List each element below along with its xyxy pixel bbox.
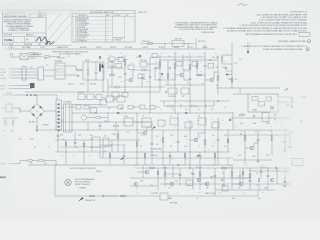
- svg-text:LINE CORD: LINE CORD: [174, 39, 182, 41]
- svg-text:IF 455KC: IF 455KC: [142, 47, 148, 49]
- wire: [26, 71, 38, 73]
- inner box: [252, 97, 258, 101]
- svg-text:3.3K: 3.3K: [126, 132, 129, 134]
- svg-text:220K: 220K: [224, 135, 227, 137]
- resistor R101: [150, 167, 155, 169]
- dark arrow mark: [284, 88, 288, 91]
- resistor R44: [115, 86, 120, 88]
- svg-text:-4.5V: -4.5V: [72, 155, 75, 157]
- wire drop: [187, 44, 189, 50]
- svg-text:12: 12: [222, 173, 224, 175]
- wire: [115, 122, 117, 125]
- potentiometer arrow: [152, 126, 156, 129]
- rail y147: [60, 146, 112, 148]
- rail y130: [36, 129, 120, 131]
- wire: [9, 74, 22, 76]
- svg-text:T1 POWER: T1 POWER: [54, 61, 63, 63]
- svg-text:1N34: 1N34: [240, 123, 243, 125]
- svg-text:-7V: -7V: [212, 71, 214, 73]
- svg-text:50: 50: [187, 83, 189, 85]
- rail y57: [150, 56, 205, 58]
- ground: [284, 150, 287, 152]
- resistor R82: [136, 142, 138, 147]
- wire: [36, 131, 38, 133]
- diode CR6: [117, 112, 119, 114]
- wire vertical: [177, 113, 179, 152]
- wire vertical: [54, 165, 56, 196]
- box module M8: [262, 113, 269, 122]
- svg-text:GRID: GRID: [106, 79, 109, 81]
- svg-text:117V 60CY: 117V 60CY: [29, 58, 36, 60]
- resistor R43: [159, 62, 161, 67]
- wire vertical: [57, 132, 59, 152]
- wire vertical: [204, 52, 206, 113]
- svg-text:REV C: REV C: [39, 16, 43, 18]
- wire: [36, 119, 38, 127]
- wire vertical: [87, 122, 89, 130]
- svg-text:R61: R61: [216, 57, 219, 59]
- junction: [36, 94, 37, 95]
- resistor R91: [244, 136, 246, 141]
- capacitor C20: [221, 179, 224, 181]
- svg-text:B+90: B+90: [214, 53, 217, 55]
- connector J2 contact: [57, 111, 60, 113]
- wire vertical: [172, 165, 174, 178]
- parts list column header line: [72, 15, 135, 17]
- ground: [257, 160, 260, 162]
- wire: [95, 74, 97, 80]
- svg-text:6K6: 6K6: [90, 135, 93, 137]
- svg-text:16MF: 16MF: [228, 79, 232, 81]
- title block row line: [3, 13, 47, 15]
- title block cell line: [38, 11, 46, 13]
- wire vertical: [249, 168, 251, 190]
- svg-text:25V: 25V: [214, 142, 216, 144]
- capacitor C102: [275, 167, 277, 170]
- box module M20: [108, 62, 114, 67]
- wire vertical: [91, 147, 93, 152]
- wire short: [165, 173, 180, 175]
- capacitor C101: [189, 167, 191, 170]
- wire vertical: [83, 140, 85, 165]
- svg-text:BLK: BLK: [90, 147, 93, 149]
- resistor R32: [148, 43, 153, 45]
- junction: [174, 59, 175, 60]
- junction: [56, 113, 57, 114]
- svg-text:C33 40: C33 40: [80, 83, 85, 85]
- title block column line: [37, 10, 39, 18]
- svg-text:1M: 1M: [198, 120, 200, 122]
- resistor R46: [110, 74, 115, 76]
- wire: [2, 107, 6, 109]
- svg-text:7. ARROWS ON POT SYMBOLS INDI: 7. ARROWS ON POT SYMBOLS INDICATE CLOCKW…: [241, 45, 308, 48]
- wire vertical: [107, 80, 109, 98]
- svg-text:OSC: OSC: [174, 53, 177, 55]
- wire: [8, 88, 22, 90]
- junction: [167, 67, 168, 68]
- can cap inner line: [69, 104, 71, 132]
- dark dot speck: [217, 100, 218, 101]
- wire: [208, 105, 215, 107]
- wire: [183, 77, 185, 81]
- wire vertical: [102, 147, 104, 158]
- tube V1 envelope: [81, 115, 86, 120]
- svg-text:3V: 3V: [130, 71, 132, 73]
- wire vertical: [227, 130, 229, 152]
- svg-text:1. ALL CAPACITOR VALUES IN MF: 1. ALL CAPACITOR VALUES IN MFD 400V PAPE…: [255, 13, 307, 16]
- wire: [26, 68, 38, 70]
- resistor R85: [109, 154, 111, 158]
- capacitor C84: [123, 155, 126, 157]
- svg-text:470K: 470K: [232, 198, 235, 200]
- title block table T1: [3, 10, 47, 46]
- svg-text:R9: R9: [34, 147, 36, 149]
- capacitor C85: [169, 155, 172, 157]
- resistor R61: [221, 57, 223, 61]
- wire: [111, 70, 113, 74]
- svg-text:1M: 1M: [186, 61, 188, 63]
- wire: [125, 79, 129, 81]
- svg-text:INTERLOCK: INTERLOCK: [142, 41, 150, 43]
- svg-text:SCRN: SCRN: [146, 81, 150, 83]
- wire vertical: [232, 112, 234, 130]
- resistor R74: [114, 125, 119, 127]
- resistor R24: [90, 195, 95, 197]
- rail y160: [233, 159, 272, 161]
- wire: [102, 80, 104, 92]
- junction: [136, 151, 137, 152]
- svg-text:T6: T6: [198, 116, 200, 118]
- junction: [160, 60, 161, 61]
- wire: [28, 56, 43, 58]
- wire drop: [204, 44, 206, 49]
- wire: [164, 105, 168, 107]
- wire vertical: [192, 168, 194, 190]
- wire vertical: [196, 60, 198, 73]
- transistor Q10: [145, 170, 149, 174]
- wire: [22, 87, 32, 90]
- rail y135 short: [228, 134, 290, 136]
- wire AC line: [2, 94, 57, 96]
- svg-text:470: 470: [172, 59, 174, 61]
- fuse F1: [38, 67, 44, 80]
- svg-text:1500: 1500: [170, 135, 173, 137]
- capacitor C41: [124, 73, 127, 75]
- svg-text:GRN: GRN: [155, 192, 158, 194]
- svg-text:6BE6: 6BE6: [160, 53, 163, 55]
- wire: [72, 104, 102, 106]
- parts list row line: [76, 23, 113, 25]
- diode CR2: [99, 56, 101, 58]
- junction: [124, 112, 125, 113]
- svg-text:B+250: B+250: [88, 155, 92, 157]
- junction: [55, 129, 56, 130]
- resistor R56: [192, 105, 197, 107]
- svg-text:V5 35Z5GT RECT: V5 35Z5GT RECT: [77, 37, 88, 39]
- parts list row line: [76, 35, 113, 37]
- wire: [12, 107, 20, 109]
- circled reference numeral 3: [306, 48, 309, 51]
- wire vertical: [239, 88, 241, 94]
- connector J2 contact: [57, 122, 60, 124]
- wire: [87, 80, 89, 92]
- svg-text:R35 100K: R35 100K: [90, 83, 96, 85]
- svg-text:L1 8H: L1 8H: [124, 116, 128, 118]
- wire vertical: [151, 122, 153, 165]
- rail y168: [135, 167, 290, 169]
- wire: [65, 65, 76, 67]
- transformer T1: [55, 63, 65, 79]
- rail y178: [130, 177, 250, 179]
- wire horizontal: [160, 59, 218, 61]
- svg-text:25V: 25V: [108, 108, 110, 110]
- wire row y107: [66, 106, 76, 108]
- wire L-shape: [227, 158, 229, 165]
- wire: [72, 112, 100, 114]
- wire: [100, 117, 108, 119]
- component stack right of module: [291, 98, 293, 103]
- resistor R52: [189, 65, 191, 70]
- wire vertical: [124, 55, 126, 92]
- wire: [62, 119, 64, 121]
- capacitor C73: [99, 125, 102, 127]
- wire vertical: [162, 130, 164, 165]
- wire vertical: [189, 55, 191, 113]
- svg-text:150V: 150V: [18, 139, 21, 141]
- box module M24: [192, 62, 198, 67]
- svg-text:GND BUS: GND BUS: [80, 47, 86, 49]
- wire vertical: [244, 130, 246, 160]
- wire: [239, 170, 241, 175]
- resistor R86: [144, 154, 146, 158]
- capacitor C104: [260, 171, 263, 173]
- junction: [218, 152, 219, 153]
- svg-text:330: 330: [216, 85, 218, 87]
- wire: [2, 117, 18, 119]
- wire: [124, 59, 129, 61]
- junction: [174, 100, 175, 101]
- connector J2 contact: [57, 115, 60, 117]
- wire: [130, 195, 160, 197]
- resistor R55: [168, 105, 173, 107]
- junction: [245, 152, 246, 153]
- svg-text:2.2K: 2.2K: [130, 63, 133, 65]
- junction: [190, 85, 191, 86]
- svg-text:270: 270: [211, 109, 213, 111]
- parts list header line: [72, 13, 135, 15]
- inner box: [259, 102, 265, 107]
- circled reference numeral 2: [308, 40, 311, 43]
- wire: [190, 139, 194, 141]
- junction: [231, 87, 232, 88]
- wire: [225, 68, 227, 71]
- svg-text:0V: 0V: [198, 127, 200, 129]
- junction: [108, 113, 109, 114]
- wire vertical: [157, 168, 159, 190]
- wire: [133, 121, 150, 123]
- row of small modules y105: [76, 105, 81, 109]
- svg-text:C41 .05: C41 .05: [136, 57, 141, 59]
- terminal lug: [22, 77, 26, 79]
- box module M27: [222, 186, 228, 191]
- svg-text:INDICATES CHASSIS GROUND: INDICATES CHASSIS GROUND: [278, 40, 306, 43]
- svg-text:4. ALL CONTROLS AT NORMAL OPE: 4. ALL CONTROLS AT NORMAL OPERATING POSI…: [251, 21, 308, 24]
- svg-text:25MF: 25MF: [252, 156, 256, 158]
- svg-text:47: 47: [199, 136, 201, 138]
- wire: [221, 61, 223, 64]
- resistor R70: [36, 127, 38, 131]
- capacitor C15: [102, 195, 104, 198]
- svg-text:50L6 OUTPUT 35Z5 RECT 12SQ: 50L6 OUTPUT 35Z5 RECT 12SQ7 DET: [70, 168, 96, 170]
- junction: [96, 80, 97, 81]
- capacitor C82: [177, 141, 180, 143]
- wire vertical: [111, 60, 113, 87]
- svg-text:250: 250: [156, 136, 158, 138]
- resistor R45: [156, 67, 161, 69]
- wire: [149, 57, 151, 60]
- box M15: [170, 118, 178, 125]
- resistor R103: [157, 171, 159, 175]
- bridge diode: [39, 106, 42, 109]
- transistor Q13: [270, 178, 274, 182]
- svg-text:12K: 12K: [162, 120, 164, 122]
- parts list column line: [112, 14, 114, 42]
- inner dark bar in regulator: [99, 64, 101, 72]
- filter can C72: [64, 104, 73, 132]
- box module M23: [176, 62, 182, 67]
- wire vertical: [276, 168, 278, 184]
- title block column line: [29, 10, 31, 18]
- svg-text:10K: 10K: [235, 63, 237, 65]
- svg-text:100: 100: [239, 59, 241, 61]
- plug contact dot: [26, 94, 28, 96]
- svg-text:C12: C12: [212, 165, 215, 167]
- wire horizontal: [165, 84, 205, 86]
- title block column line: [24, 37, 26, 43]
- plug contact dot: [34, 94, 36, 96]
- svg-text:PART NUMBERS SHOWN ARE FOR RUN: PART NUMBERS SHOWN ARE FOR RUN 2 SETS ON…: [246, 33, 298, 36]
- title block column line: [34, 37, 36, 43]
- wire vertical: [257, 130, 259, 160]
- wire: [233, 93, 248, 95]
- capacitor C33: [95, 72, 98, 74]
- svg-text:85V: 85V: [172, 73, 174, 75]
- resistor R48: [196, 64, 198, 69]
- capacitor C53: [180, 105, 182, 108]
- junction: [215, 178, 216, 179]
- resistor R71: [6, 104, 12, 112]
- svg-text:50C5: 50C5: [266, 155, 269, 157]
- potentiometer arrow: [196, 154, 199, 157]
- svg-text:.05: .05: [196, 198, 198, 200]
- resistor R92: [271, 136, 273, 141]
- svg-text:GRN: GRN: [75, 147, 78, 149]
- tube V3 box: [103, 138, 109, 146]
- ground: [291, 106, 294, 108]
- wire vertical: [123, 145, 125, 165]
- wire vertical: [164, 165, 166, 186]
- box module M21: [116, 64, 122, 69]
- capacitor C63: [287, 103, 290, 105]
- capacitor C94: [57, 135, 60, 137]
- svg-text:.02: .02: [256, 185, 258, 187]
- wire: [99, 122, 101, 125]
- note checkbox: [299, 33, 310, 37]
- rail y122: [56, 121, 150, 123]
- svg-text:T3 IF 455KC: T3 IF 455KC: [168, 96, 176, 98]
- wire: [22, 83, 29, 86]
- svg-text:45V: 45V: [186, 71, 188, 73]
- transistor Q7: [170, 182, 174, 186]
- svg-text:3V: 3V: [270, 131, 272, 133]
- box module M28: [172, 41, 184, 47]
- resistor R33: [87, 70, 89, 75]
- svg-text:IF T2: IF T2: [112, 100, 115, 102]
- diode CR7: [185, 112, 187, 114]
- junction: [180, 178, 181, 179]
- wire: [132, 70, 134, 79]
- svg-text:RF AND IF ALIGNMENT PER SERVIC: RF AND IF ALIGNMENT PER SERVICE DATA: [263, 48, 303, 51]
- svg-text:OUT: OUT: [282, 185, 285, 187]
- capacitor C22: [239, 175, 242, 177]
- box module M6: [181, 88, 189, 94]
- svg-text:100K: 100K: [234, 126, 237, 128]
- revision diagonal stroke: [55, 23, 71, 42]
- box module M25: [208, 64, 214, 69]
- svg-text:0V: 0V: [144, 73, 146, 75]
- resistor R104: [242, 171, 244, 175]
- resistor R64: [240, 114, 245, 116]
- wire: [43, 160, 56, 162]
- svg-text:455: 455: [146, 53, 148, 55]
- switch S1: [30, 83, 35, 88]
- parts list row line: [76, 27, 113, 29]
- capacitor C61: [225, 67, 228, 69]
- resistor R65: [274, 115, 276, 120]
- resistor R72: [12, 121, 14, 125]
- wire vertical: [74, 132, 76, 147]
- rail y140 left: [55, 139, 100, 141]
- svg-text:.005: .005: [238, 188, 241, 190]
- junction: [150, 70, 151, 71]
- transistor Q5: [194, 138, 198, 142]
- relay K1 box: [78, 94, 85, 100]
- diagonal arrow mark: [78, 197, 84, 202]
- title block row line: [3, 36, 47, 38]
- wire vertical: [144, 152, 146, 165]
- title block cell line: [38, 14, 46, 16]
- connector J2 contact: [57, 126, 60, 128]
- svg-text:SEE NOTE 3: SEE NOTE 3: [138, 12, 147, 14]
- wire: [5, 118, 7, 121]
- capacitor C95: [289, 146, 292, 148]
- svg-text:1.2V: 1.2V: [158, 73, 161, 75]
- rail y171 short: [250, 170, 290, 172]
- crystal Y1: [20, 54, 28, 60]
- wire: [232, 183, 239, 185]
- wire: [183, 70, 185, 74]
- box module M5: [168, 88, 177, 94]
- svg-text:T5: T5: [170, 116, 172, 118]
- rail y186 short: [130, 185, 158, 187]
- junction: [36, 130, 37, 131]
- wire: [278, 101, 288, 103]
- svg-text:150: 150: [133, 107, 135, 109]
- svg-text:40: 40: [198, 109, 200, 111]
- capacitor C51: [204, 65, 207, 67]
- svg-text:4.7: 4.7: [202, 83, 204, 85]
- svg-text:200V: 200V: [262, 192, 265, 194]
